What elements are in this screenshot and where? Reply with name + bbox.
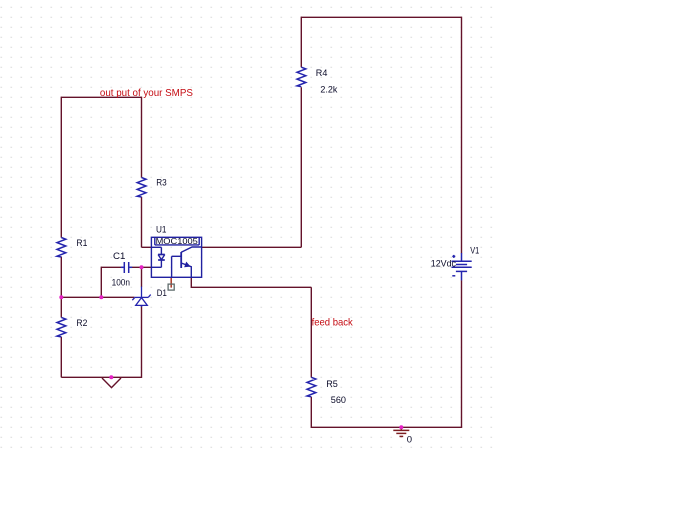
- resistor R1: [57, 238, 66, 258]
- svg-text:V1: V1: [470, 245, 479, 256]
- wire: [142, 246, 152, 248]
- wire: [60, 97, 62, 238]
- svg-text:MOC1005: MOC1005: [156, 237, 199, 246]
- wire: [141, 197, 143, 248]
- wire: [141, 267, 143, 287]
- wire: [191, 286, 311, 288]
- svg-text:R1: R1: [76, 238, 87, 249]
- capacitor C1: [121, 262, 132, 273]
- ground 0: [393, 427, 409, 436]
- wire: [141, 97, 143, 178]
- wire: [301, 16, 461, 18]
- ground chassis: [102, 378, 121, 388]
- wire: [461, 280, 463, 427]
- svg-text:D1: D1: [157, 288, 167, 299]
- junction: [109, 375, 113, 379]
- wire: [300, 87, 302, 247]
- svg-text:560: 560: [331, 395, 346, 406]
- resistor R4: [297, 67, 306, 87]
- wire: [61, 96, 141, 98]
- resistor R3: [137, 178, 146, 198]
- wire: [100, 267, 102, 298]
- svg-text:R5: R5: [326, 379, 338, 390]
- svg-text:0: 0: [407, 434, 412, 445]
- wire: [60, 257, 62, 318]
- svg-text:12Vdc: 12Vdc: [431, 259, 456, 270]
- wire: [61, 296, 134, 298]
- wire: [170, 277, 172, 287]
- svg-text:100n: 100n: [112, 277, 130, 288]
- svg-text:R3: R3: [156, 178, 167, 189]
- wire: [300, 17, 302, 68]
- zener diode D1: [132, 287, 150, 308]
- wire: [461, 17, 463, 254]
- junction: [59, 295, 63, 299]
- wire: [311, 426, 462, 428]
- resistor R2: [57, 317, 66, 337]
- wire: [132, 266, 152, 268]
- wire: [60, 337, 62, 378]
- junction: [140, 265, 144, 269]
- battery V1: [452, 253, 472, 280]
- svg-text:R4: R4: [316, 68, 328, 79]
- wire: [310, 397, 312, 428]
- svg-text:U1: U1: [156, 225, 167, 236]
- wire: [190, 277, 192, 288]
- junction: [99, 295, 103, 299]
- wire: [202, 246, 302, 248]
- svg-text:out put of your SMPS: out put of your SMPS: [100, 88, 193, 99]
- svg-text:feed back: feed back: [312, 317, 354, 328]
- wire: [141, 306, 143, 378]
- svg-text:R2: R2: [76, 318, 87, 329]
- junction: [399, 425, 403, 429]
- svg-text:C1: C1: [113, 251, 125, 262]
- wire: [61, 376, 141, 378]
- wire: [101, 266, 121, 268]
- resistor R5: [307, 377, 316, 397]
- optocoupler U1 MOC1005: [151, 237, 201, 277]
- svg-text:2.2k: 2.2k: [320, 84, 337, 95]
- wire: [310, 287, 312, 377]
- no-connect pin square: [168, 284, 174, 290]
